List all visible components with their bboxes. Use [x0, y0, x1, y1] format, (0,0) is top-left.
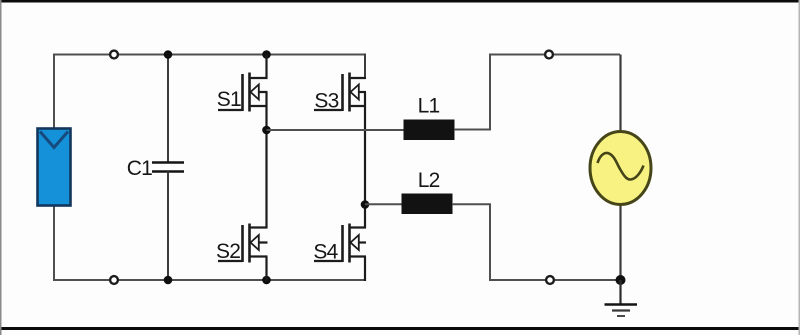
svg-text:L1: L1: [418, 94, 440, 117]
wire: L1 to AC top: [454, 55, 620, 130]
junction: AC bottom / ground: [616, 275, 626, 285]
wire: L2 to AC bottom: [452, 204, 621, 280]
svg-text:C1: C1: [127, 157, 152, 180]
terminal: top-left open circle: [110, 51, 118, 59]
wire: left vertical lower: [53, 205, 55, 281]
AC source (grid): [590, 132, 651, 205]
terminal: top-right open circle: [545, 51, 553, 59]
svg-text:S2: S2: [216, 240, 240, 263]
wire: phase A to L1: [267, 129, 405, 131]
junction: top C1 tap: [164, 50, 173, 59]
inductor L1: [404, 120, 454, 140]
transistor S2 (MOSFET): [218, 224, 268, 282]
junction: top S1 drain: [262, 50, 271, 59]
wire: right leg rail S3-source to S4-drain: [364, 92, 366, 228]
svg-text:L2: L2: [418, 169, 440, 192]
junction: bottom S2 source: [262, 276, 271, 285]
ground: [605, 280, 638, 316]
svg-text:S1: S1: [217, 88, 241, 111]
wire: phase B to L2: [365, 203, 402, 205]
wire: left leg rail S1-source to S2-drain: [265, 92, 267, 228]
wire: left vertical upper: [53, 54, 55, 130]
junction: phase A midpoint: [262, 126, 271, 135]
junction: phase B midpoint: [361, 200, 370, 209]
transistor S4 (MOSFET): [314, 224, 366, 282]
wire: AC source bottom lead: [619, 204, 621, 281]
frame (decorative): [0, 0, 800, 3]
solar panel PV: [38, 129, 71, 206]
svg-text:S4: S4: [313, 241, 338, 264]
wire: bottom DC bus: [54, 279, 365, 281]
terminal: bottom-right open circle: [546, 276, 554, 284]
transistor S1 (MOSFET): [218, 55, 268, 112]
junction: bottom C1 tap: [164, 276, 173, 285]
wire: top DC bus: [54, 54, 365, 56]
transistor S3 (MOSFET): [314, 54, 366, 112]
svg-text:S3: S3: [314, 90, 338, 113]
terminal: bottom-left open circle: [110, 276, 118, 284]
inductor L2: [402, 194, 452, 214]
capacitor C1: [152, 55, 184, 282]
wire: AC source top lead: [619, 55, 621, 133]
